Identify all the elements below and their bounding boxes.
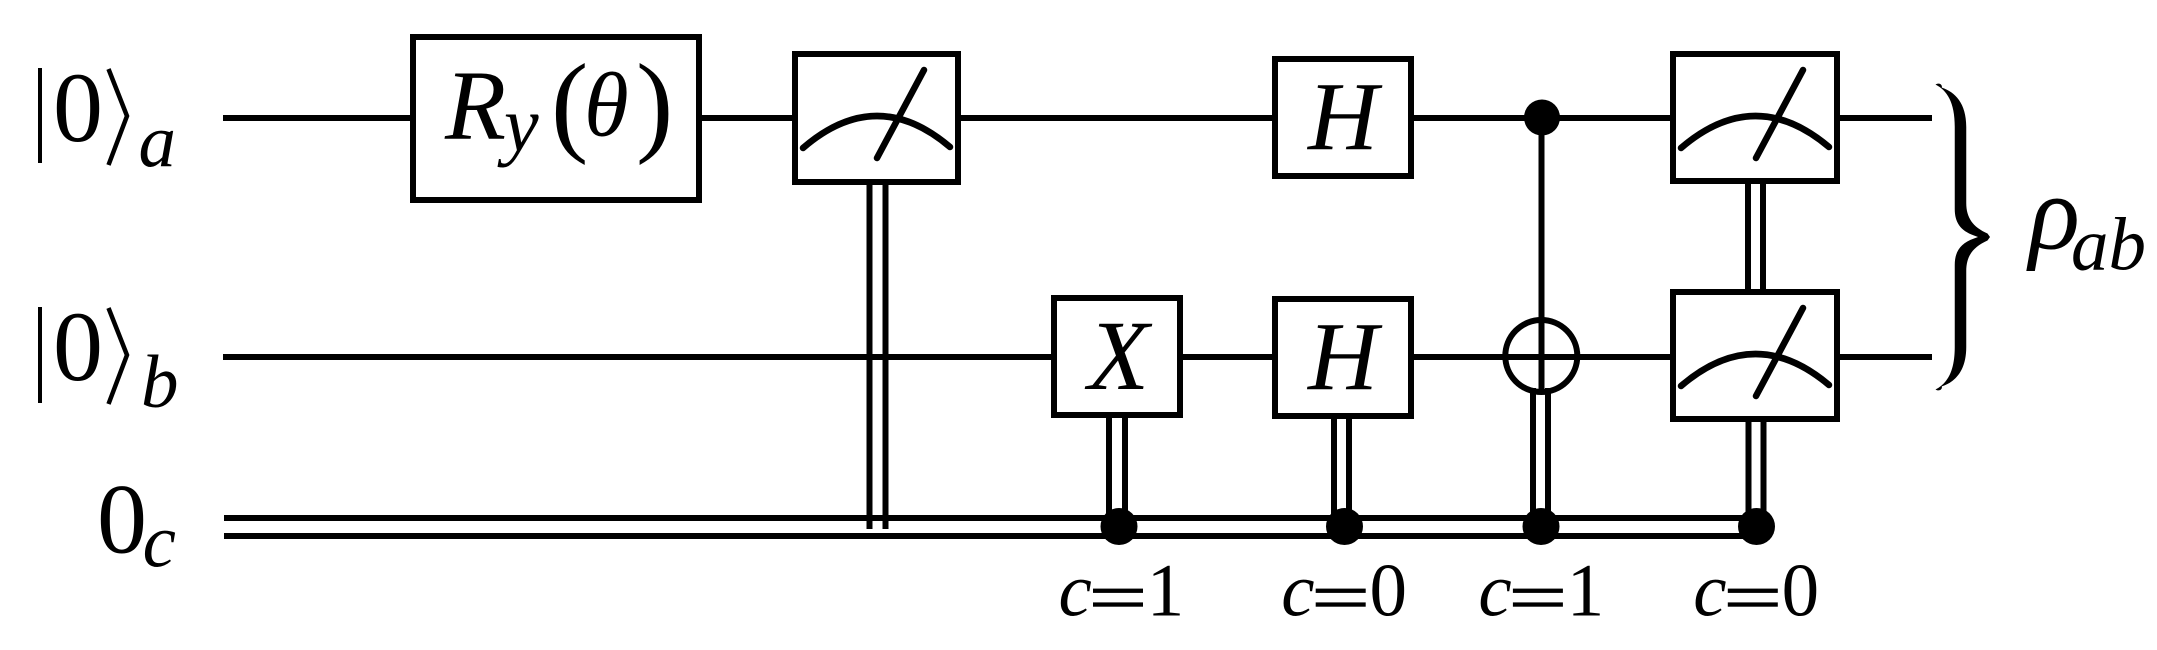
wire qubit b [223,354,1932,360]
svg-text:1: 1 [1147,550,1185,633]
svg-text:c: c [1059,550,1092,633]
svg-text:R: R [444,50,506,161]
svg-text:X: X [1084,300,1153,411]
label c=0 under H(b) dot [1281,550,1407,633]
gate H on wire a [1275,59,1411,176]
classical double line: measurement M1 to rail [870,184,886,529]
classical double line: CNOT to rail [1533,388,1548,526]
svg-text:c: c [1281,550,1314,633]
svg-text:c: c [1693,550,1726,633]
svg-text:): ) [636,42,673,166]
classical dot c=1 under CNOT [1523,508,1560,545]
gate X on wire b [1054,298,1180,415]
label ket |0>_b [38,291,179,424]
classical wire c (double rail) [224,515,1757,521]
label ket |0>_a [38,52,176,183]
measurement M3 on wire b (right) [1673,292,1837,419]
classical dot c=0 under H(b) [1326,508,1363,545]
wire qubit a [223,115,1932,121]
svg-text:y: y [497,81,539,168]
label rho_ab [2026,155,2146,287]
control dot on wire a (CNOT control) [1524,100,1560,136]
label c=0 under M3 dot [1693,550,1819,633]
svg-text:H: H [1306,64,1383,171]
svg-text:a: a [139,100,177,183]
curly brace for rho_ab [1936,84,1991,391]
measurement M1 on wire a [795,54,958,182]
svg-text:c: c [1478,550,1511,633]
classical double line: measurement M2 to measurement M3 [1748,184,1763,292]
CNOT target circle on wire b [1505,320,1577,392]
gate H on wire b [1275,299,1411,416]
classical double line: measurement M3 to rail [1749,419,1764,526]
gate Ry(theta) box [413,37,699,200]
svg-text:0: 0 [1782,550,1820,633]
svg-text:0: 0 [97,464,147,575]
wire: control vertical line to CNOT target [1539,118,1545,394]
classical double line: X gate to rail [1109,415,1125,526]
svg-text:1: 1 [1567,550,1605,633]
svg-text:c: c [143,501,176,584]
svg-text:0: 0 [1370,550,1408,633]
svg-text:H: H [1306,304,1383,411]
svg-text:0: 0 [53,52,103,163]
label c=1 under X dot [1059,550,1185,633]
svg-text:ab: ab [2071,204,2146,287]
svg-text:(: ( [551,42,588,166]
svg-text:b: b [141,341,179,424]
classical dot c=0 under M3 [1738,508,1775,545]
label c=1 under CNOT dot [1478,550,1604,633]
label 0_c classical register [97,464,176,584]
classical double line: H(b) gate to rail [1334,416,1349,526]
measurement M2 on wire a (right) [1673,54,1837,181]
svg-text:0: 0 [53,291,103,402]
classical dot c=1 under X [1101,508,1138,545]
svg-text:θ: θ [584,55,629,156]
